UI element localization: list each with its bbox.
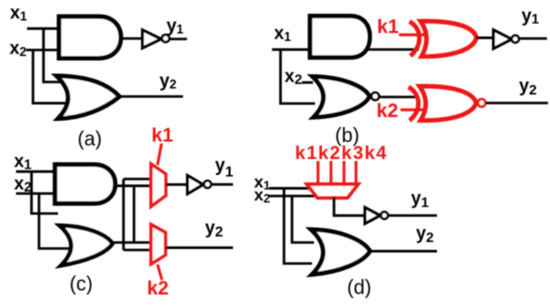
wire y1 (c) — [212, 183, 234, 186]
inverter triangle (b) — [494, 30, 512, 49]
inverter bubble (a) — [162, 35, 169, 42]
XOR key gate body (b) — [421, 21, 477, 56]
wire y1 (b) — [519, 37, 547, 40]
wire y2 (a) — [119, 95, 183, 98]
svg-text:y1: y1 — [522, 6, 540, 27]
wire k1 to MUX1 select (c) — [158, 144, 162, 166]
svg-text:y2: y2 — [160, 71, 177, 92]
svg-text:x2: x2 — [10, 38, 27, 59]
caption (a) — [78, 129, 102, 151]
wire x2 branch to OR lower input (c) — [39, 194, 70, 249]
AND gate (a) — [59, 17, 121, 59]
wire x2 to AND (a) — [26, 49, 59, 52]
wire x2 to AND (c) — [16, 192, 56, 195]
wire x1 branch to OR upper input (a) — [44, 29, 63, 82]
svg-text:y2: y2 — [205, 218, 223, 241]
wire x1 branch to OR lower input (d) — [284, 188, 312, 263]
wire LUT output to inverter (d) — [334, 197, 366, 216]
wire AND output to inverter (a) — [121, 37, 143, 40]
wire x1 branch to NOR lower input (b) — [281, 50, 316, 104]
wire y2 (d) — [370, 250, 437, 253]
wire x2 to LUT (d) — [269, 195, 316, 198]
wire k1 to XOR (b) — [399, 33, 427, 36]
wire k2 to XNOR (b) — [401, 108, 424, 111]
node y1 (d) — [411, 188, 429, 210]
wire y2 (b) — [486, 102, 548, 105]
XNOR bubble (b) — [478, 99, 486, 107]
wire MUX1 output to inverter (c) — [166, 183, 189, 186]
AND gate (c) — [55, 165, 115, 204]
caption (d) — [347, 277, 371, 299]
NOR gate body (b) — [313, 77, 370, 118]
node y2 (b) — [519, 76, 537, 98]
node x2 (a) — [10, 38, 27, 59]
svg-text:(a): (a) — [78, 129, 102, 151]
node x1 (c) — [14, 151, 32, 172]
inverter bubble (b) — [512, 35, 519, 42]
svg-text:k1k2k3k4: k1k2k3k4 — [295, 142, 388, 163]
node y2 (a) — [160, 71, 177, 92]
key labels k1 k2 k3 k4 (d) — [295, 142, 388, 163]
OR gate (d) — [311, 230, 370, 275]
node x1 (d) — [254, 173, 270, 193]
wire k2 to MUX2 select (c) — [158, 265, 163, 281]
svg-text:k2: k2 — [377, 100, 399, 122]
node y2 (c) — [205, 218, 223, 241]
NOR bubble (b) — [371, 93, 379, 101]
svg-text:x1: x1 — [274, 23, 291, 44]
node y1 (a) — [167, 16, 184, 37]
key k2 label (b) — [377, 100, 399, 122]
svg-text:x2: x2 — [14, 174, 32, 195]
key k2 label (c) — [147, 278, 169, 300]
wire x2 to NOR (b) — [302, 81, 313, 84]
node y2 (d) — [416, 223, 434, 245]
wire k1 to LUT (d) — [317, 161, 320, 185]
wire x1 to AND (c) — [16, 170, 56, 173]
svg-text:y2: y2 — [416, 223, 434, 245]
wire x1 to AND (b) — [272, 48, 310, 51]
svg-text:x1: x1 — [14, 151, 32, 172]
svg-text:(c): (c) — [70, 274, 93, 296]
wire x1 to LUT (d) — [269, 187, 310, 190]
wire k4 to LUT (d) — [355, 161, 358, 185]
node x2 (d) — [254, 186, 270, 206]
inverter triangle (a) — [143, 30, 162, 48]
inverter triangle (c) — [188, 176, 204, 194]
svg-text:x2: x2 — [285, 66, 303, 87]
wire MUX2 lower input stub (c) — [124, 249, 152, 252]
node x1 (b) — [274, 23, 291, 44]
svg-text:y1: y1 — [215, 155, 233, 181]
OR gate (c) — [60, 226, 113, 266]
MUX2 trapezoid (c) — [151, 225, 166, 265]
wire AND output to XOR (b) — [366, 48, 419, 51]
wire AND output to MUX1 lower input (c) — [115, 185, 151, 188]
wire x2 branch to OR lower input (a) — [33, 50, 68, 103]
wire x1 to AND (a) — [27, 27, 59, 30]
node y1 (c) — [215, 155, 233, 181]
wire OR output to MUX2 upper input (c) — [112, 241, 151, 244]
svg-text:y1: y1 — [411, 188, 429, 210]
wire k2 to LUT (d) — [330, 161, 333, 185]
node x2 (b) — [285, 66, 303, 87]
wire MUX1 upper input stub (c) — [124, 178, 152, 181]
node x1 (a) — [10, 3, 27, 24]
svg-text:x1: x1 — [10, 3, 27, 24]
svg-text:(d): (d) — [347, 277, 371, 299]
svg-text:k1: k1 — [152, 125, 174, 147]
wire x1 branch to OR upper input (c) — [32, 172, 59, 214]
LUT trapezoid (d) — [307, 184, 359, 198]
wire vertical OR-feed (c) — [122, 179, 125, 250]
inverter bubble (c) — [204, 181, 211, 188]
wire y1 (a) — [170, 38, 187, 41]
XNOR key gate input arc (b) — [409, 87, 419, 121]
caption (c) — [70, 274, 93, 296]
svg-text:k1: k1 — [377, 16, 399, 38]
svg-text:k2: k2 — [147, 278, 169, 300]
caption (b) — [335, 125, 359, 147]
XOR key gate input arc (b) — [410, 22, 420, 56]
node y1 (b) — [522, 6, 540, 27]
XNOR key gate body (b) — [420, 86, 477, 120]
wire MUX2 output y2 (c) — [166, 246, 234, 249]
wire k3 to LUT (d) — [343, 161, 346, 185]
AND gate (b) — [310, 16, 370, 58]
key k1 label (c) — [152, 125, 174, 147]
wire NOR output to XNOR (b) — [380, 96, 418, 99]
inverter triangle (d) — [365, 208, 380, 224]
key k1 label (b) — [377, 16, 399, 38]
svg-text:y1: y1 — [167, 16, 184, 37]
inverter bubble (d) — [381, 212, 388, 219]
svg-text:y2: y2 — [519, 76, 537, 98]
wire x2 branch to OR upper input (d) — [292, 196, 314, 243]
node x2 (c) — [14, 174, 32, 195]
wire y1 (d) — [388, 214, 437, 217]
wire vertical AND-feed (c) — [133, 186, 136, 243]
MUX1 trapezoid (c) — [151, 164, 166, 207]
OR gate (a) — [57, 76, 120, 119]
wire XOR output to inverter (b) — [476, 36, 494, 39]
